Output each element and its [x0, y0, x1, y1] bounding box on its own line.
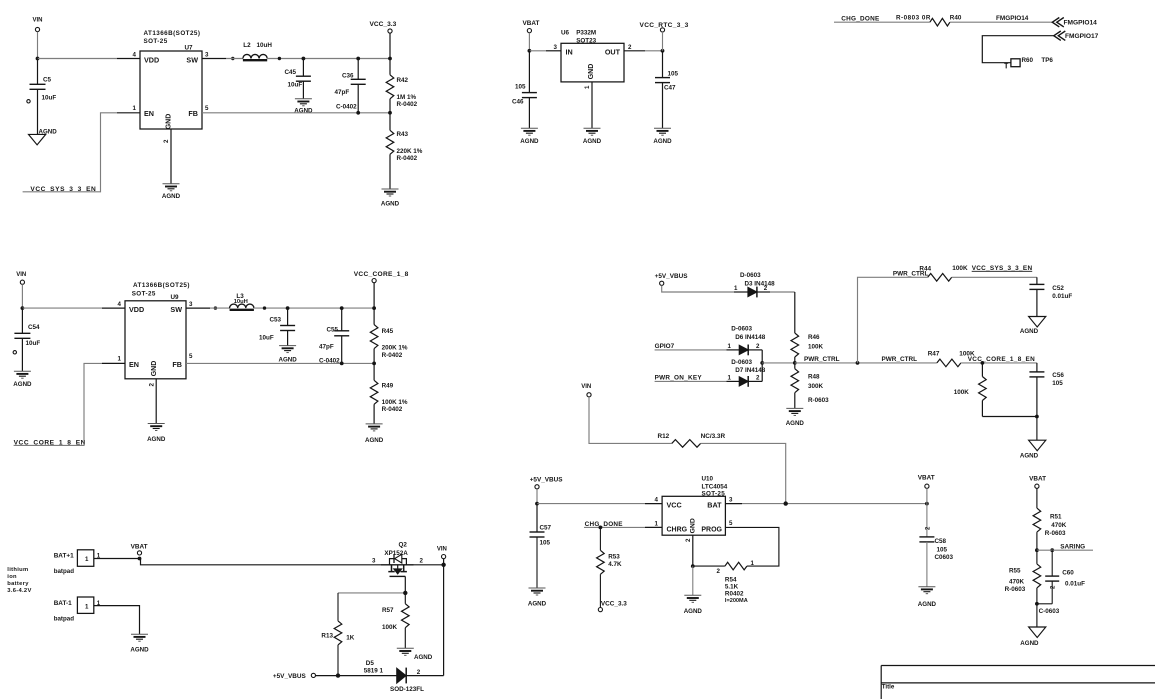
junction FB/R45/R49: [372, 362, 376, 366]
svg-text:C60: C60: [1062, 569, 1074, 576]
U6 GND pin 1 wire: [591, 82, 593, 128]
svg-text:NC/3.3R: NC/3.3R: [701, 433, 726, 440]
svg-text:5: 5: [205, 105, 209, 112]
svg-text:AGND: AGND: [918, 601, 937, 608]
svg-text:VBAT: VBAT: [523, 20, 540, 27]
wire PWR_CTRL run: [795, 362, 937, 364]
wire to U9 VDD: [22, 307, 102, 309]
svg-text:ion: ion: [7, 574, 17, 580]
junction gate/R13/R57: [403, 591, 407, 595]
junction OUT/C47: [661, 49, 665, 53]
svg-text:CHRG: CHRG: [667, 526, 688, 533]
junction Q2 drain/VIN: [441, 563, 445, 567]
ground AGND at U7 pin 2: [163, 183, 180, 185]
resistor R51: [1036, 488, 1038, 508]
resistor R54: [725, 562, 747, 570]
junction R13 bottom: [336, 673, 340, 677]
terminal VBAT (divider): [1035, 484, 1039, 488]
svg-text:AGND: AGND: [39, 128, 58, 135]
svg-text:R-0402: R-0402: [382, 352, 403, 359]
svg-text:C-0603: C-0603: [1039, 608, 1060, 615]
junction C56 bottom: [1035, 415, 1039, 419]
wire to AGND (divider): [1036, 604, 1038, 627]
pin stub U10.3 BAT: [725, 503, 742, 505]
svg-text:AGND: AGND: [1020, 640, 1039, 647]
svg-text:2: 2: [628, 44, 632, 51]
svg-text:FB: FB: [172, 360, 182, 369]
svg-text:R-0402: R-0402: [397, 101, 418, 108]
svg-text:+5V_VBUS: +5V_VBUS: [273, 673, 307, 680]
svg-text:D-0603: D-0603: [731, 359, 752, 366]
svg-text:5: 5: [729, 520, 733, 527]
ground AGND under C56: [1029, 440, 1046, 451]
svg-text:P332M: P332M: [576, 30, 596, 37]
svg-text:FMGPIO14: FMGPIO14: [996, 15, 1029, 22]
wire SW to L2: [226, 58, 243, 60]
svg-text:C57: C57: [540, 525, 552, 532]
svg-text:SOT-25: SOT-25: [144, 38, 168, 45]
svg-text:AGND: AGND: [684, 608, 703, 615]
svg-text:R-0603: R-0603: [808, 397, 829, 404]
junction PWR_CTRL branch: [856, 361, 860, 365]
svg-text:CHG_DONE: CHG_DONE: [841, 16, 880, 23]
terminal VCC_CORE_1_8: [372, 279, 376, 283]
svg-text:C45: C45: [285, 69, 297, 76]
svg-text:AGND: AGND: [528, 601, 547, 608]
pin stub U7.4 VDD: [117, 58, 140, 60]
svg-text:LTC4054: LTC4054: [702, 484, 728, 491]
capacitor C52: [1036, 277, 1038, 284]
junction VBAT battery: [138, 557, 142, 561]
junction CHG_DONE/R53: [599, 526, 603, 530]
junction VCC_CORE_1_8: [372, 306, 376, 310]
svg-text:R-0603: R-0603: [1005, 586, 1026, 593]
svg-text:100K: 100K: [382, 624, 398, 631]
svg-text:IN: IN: [566, 47, 573, 56]
resistor R57: [404, 593, 406, 604]
svg-text:VDD: VDD: [144, 55, 159, 64]
svg-text:2: 2: [148, 383, 155, 387]
svg-text:10uF: 10uF: [42, 95, 57, 102]
svg-text:SOD-123FL: SOD-123FL: [390, 686, 424, 693]
pin lead D7 cathode: [748, 380, 762, 382]
junction D6/D7 node: [760, 361, 764, 365]
svg-text:100K: 100K: [808, 343, 824, 350]
resistor R13: [337, 593, 339, 621]
svg-text:GND: GND: [166, 114, 173, 130]
svg-text:VBAT: VBAT: [918, 475, 935, 482]
svg-text:R44: R44: [919, 265, 931, 272]
wire GPIO7 to D6: [655, 349, 727, 351]
svg-text:AGND: AGND: [520, 138, 539, 145]
svg-text:2: 2: [685, 538, 692, 542]
diode D5: [397, 668, 406, 683]
junction C45 top: [302, 57, 306, 61]
svg-text:2: 2: [764, 285, 768, 292]
junction R51/R55/SARING: [1035, 548, 1039, 552]
wire VCC_CORE_1_8_EN to U9 EN: [14, 363, 102, 445]
ground AGND under C46: [521, 127, 538, 129]
svg-text:1: 1: [118, 356, 122, 363]
wire junction to AGND: [692, 566, 694, 595]
transistor Q2 gate: [390, 575, 406, 577]
svg-text:3: 3: [205, 52, 209, 59]
svg-text:VBAT: VBAT: [1029, 475, 1046, 482]
svg-text:10uF: 10uF: [26, 340, 41, 347]
svg-text:AT1366B(SOT25): AT1366B(SOT25): [144, 30, 201, 37]
transistor Q2 channel wire: [381, 564, 414, 566]
svg-text:R12: R12: [658, 433, 670, 440]
ground AGND under R48: [786, 407, 803, 409]
svg-text:FMGPIO17: FMGPIO17: [1065, 33, 1099, 40]
svg-text:GPIO7: GPIO7: [655, 343, 675, 350]
capacitor C46: [528, 51, 530, 93]
svg-text:VBAT: VBAT: [131, 544, 148, 551]
terminal +5V_VBUS (mid): [660, 281, 664, 285]
svg-text:VIN: VIN: [437, 547, 447, 553]
svg-text:10uF: 10uF: [259, 335, 274, 342]
connector BAT+ body: [77, 550, 93, 567]
resistor R44: [928, 274, 952, 282]
capacitor C55: [341, 308, 343, 331]
resistor R53: [599, 527, 601, 550]
svg-text:I=200MA: I=200MA: [725, 598, 748, 604]
svg-text:EN: EN: [129, 360, 139, 369]
svg-text:47pF: 47pF: [335, 89, 350, 96]
junction C55 top: [340, 306, 344, 310]
pin stub U9.4 VDD: [102, 307, 125, 309]
svg-text:GND: GND: [588, 64, 595, 80]
svg-text:105: 105: [937, 546, 948, 553]
svg-text:AGND: AGND: [414, 654, 433, 661]
ground AGND under R57: [397, 647, 414, 649]
svg-text:D7 IN4148: D7 IN4148: [735, 367, 766, 374]
wire L3 to VCC_CORE rail: [254, 307, 374, 309]
svg-text:SOT-25: SOT-25: [702, 491, 726, 498]
svg-text:PWR_CTRL: PWR_CTRL: [804, 356, 840, 363]
capacitor C58: [926, 504, 928, 537]
svg-text:4: 4: [133, 52, 137, 59]
wire VIN vertical: [443, 559, 445, 676]
svg-text:U10: U10: [702, 475, 714, 482]
svg-text:R46: R46: [808, 334, 820, 341]
svg-text:AGND: AGND: [583, 138, 602, 145]
junction PWR_CTRL at R46/R48: [793, 361, 797, 365]
regulator U9 body: [125, 301, 186, 379]
svg-text:220K 1%: 220K 1%: [397, 148, 423, 155]
svg-text:5: 5: [189, 353, 193, 360]
svg-text:GND: GND: [151, 361, 158, 377]
svg-text:TP6: TP6: [1041, 57, 1053, 64]
ground AGND under C45: [295, 98, 312, 100]
svg-text:AGND: AGND: [147, 436, 166, 443]
svg-text:AGND: AGND: [1020, 328, 1039, 335]
junction C36 bottom: [356, 111, 360, 115]
resistor R42: [389, 59, 391, 75]
svg-text:D-0603: D-0603: [731, 326, 752, 333]
terminal VIN (mid): [20, 280, 24, 284]
wire +5V_VBUS to D3: [662, 285, 734, 292]
svg-text:XP152A: XP152A: [384, 550, 408, 557]
svg-text:U9: U9: [171, 294, 180, 301]
svg-text:VCC_CORE_1_8: VCC_CORE_1_8: [354, 271, 409, 278]
ground AGND under BAT-: [131, 633, 148, 635]
pin stub U10.4 VCC: [645, 503, 662, 505]
svg-text:R57: R57: [382, 607, 394, 614]
svg-text:300K: 300K: [808, 383, 824, 390]
wire D6/D7 tie: [761, 350, 763, 382]
svg-text:2: 2: [163, 139, 170, 143]
diode D7: [739, 377, 748, 386]
wire OUT to VCC_RTC: [645, 50, 663, 52]
junction C53 top: [286, 306, 290, 310]
svg-text:R-0803 0R: R-0803 0R: [896, 15, 931, 22]
resistor R46: [791, 333, 799, 357]
ground AGND under C58: [918, 586, 935, 588]
wire R44 to C52: [952, 276, 1037, 278]
terminal VBAT (U6): [527, 29, 531, 33]
pin stub U9.3 SW: [186, 307, 210, 309]
svg-text:C56: C56: [1052, 372, 1064, 379]
svg-text:AGND: AGND: [786, 420, 805, 427]
resistor 100K (pull-down): [981, 363, 983, 377]
svg-text:0.01uF: 0.01uF: [1065, 580, 1085, 587]
svg-text:1: 1: [133, 105, 137, 112]
svg-text:AGND: AGND: [365, 437, 384, 444]
pin lead D7 anode: [727, 380, 740, 382]
svg-text:1: 1: [655, 520, 659, 527]
wire GND junction to R54: [693, 565, 725, 567]
junction C55 bottom: [340, 362, 344, 366]
junction VBAT/C58: [925, 502, 929, 506]
resistor R47: [937, 359, 961, 367]
terminal VIN (charger): [587, 393, 591, 397]
svg-text:SARING: SARING: [1060, 544, 1085, 551]
svg-text:105: 105: [668, 71, 679, 78]
pin lead D3 cathode: [757, 291, 770, 293]
ground AGND under C47: [654, 127, 671, 129]
svg-text:Title: Title: [882, 684, 895, 691]
wire D3 to R46: [770, 291, 795, 293]
wire SW to L3: [210, 307, 230, 309]
capacitor C60: [1051, 550, 1053, 576]
svg-text:VCC_RTC_3_3: VCC_RTC_3_3: [640, 22, 689, 29]
terminal VIN (battery): [442, 555, 446, 559]
pin lead D3 anode: [734, 291, 748, 293]
svg-text:R47: R47: [928, 350, 940, 357]
svg-text:AGND: AGND: [278, 357, 297, 364]
wire CHG_DONE to R40: [834, 21, 930, 23]
resistor R43: [389, 113, 391, 131]
U10 GND pin 2 wire: [692, 535, 694, 566]
capacitor C53: [287, 308, 289, 325]
svg-text:1: 1: [85, 603, 89, 610]
wire R47 to C56: [961, 362, 1037, 364]
svg-text:47pF: 47pF: [319, 343, 334, 350]
diode D6: [739, 345, 748, 354]
svg-text:lithium: lithium: [7, 567, 28, 573]
transistor Q2 body diode: [390, 559, 407, 565]
resistor R49: [373, 363, 375, 380]
capacitor C57: [536, 504, 538, 532]
svg-text:AGND: AGND: [381, 200, 400, 207]
capacitor C54: [21, 308, 23, 333]
svg-text:2: 2: [756, 343, 760, 350]
wire L2 to VCC_3.3 rail: [267, 58, 390, 60]
off-page connector FMGPIO14: [1052, 18, 1064, 27]
test point TP6 (R60): [1011, 59, 1020, 67]
svg-text:SW: SW: [170, 305, 182, 314]
capacitor C5: [37, 59, 39, 85]
svg-text:C36: C36: [342, 72, 354, 79]
svg-text:1: 1: [734, 285, 738, 292]
svg-text:R55: R55: [1009, 567, 1021, 574]
svg-text:C46: C46: [512, 98, 524, 105]
pin stub U6.2 OUT: [624, 50, 645, 52]
svg-text:VCC_SYS_3_3_EN: VCC_SYS_3_3_EN: [972, 265, 1033, 272]
transistor Q2 source/drain stubs: [388, 565, 407, 572]
ground AGND under C53: [279, 345, 296, 347]
wire BAT+ to VBAT: [94, 558, 140, 560]
svg-text:+5V_VBUS: +5V_VBUS: [655, 273, 689, 280]
svg-text:BAT: BAT: [707, 501, 722, 510]
charger U10 body: [662, 496, 725, 535]
wire VCC_3.3 to rail: [389, 33, 391, 58]
svg-text:EN: EN: [144, 109, 154, 118]
wire FB rail: [202, 112, 390, 114]
junction after L3: [263, 306, 266, 309]
transistor Q2 substrate arrow: [397, 565, 399, 569]
junction on SW rail: [231, 57, 234, 60]
capacitor C56: [1036, 363, 1038, 372]
svg-text:R49: R49: [382, 382, 394, 389]
svg-text:BAT+1: BAT+1: [54, 553, 74, 560]
svg-text:470K: 470K: [1009, 578, 1025, 585]
wire R12 to BAT rail: [701, 443, 786, 503]
svg-text:Q2: Q2: [399, 542, 408, 549]
svg-text:C53: C53: [270, 316, 282, 323]
resistor R45: [373, 308, 375, 325]
capacitor C47: [662, 51, 664, 78]
svg-text:2: 2: [1051, 585, 1057, 589]
ground AGND under U10: [684, 594, 701, 596]
pin lead D6 cathode: [748, 349, 762, 351]
svg-text:AT1366B(SOT25): AT1366B(SOT25): [133, 282, 190, 289]
svg-text:batpad: batpad: [54, 615, 75, 622]
svg-text:AGND: AGND: [130, 646, 149, 653]
terminal VBAT (charger): [925, 484, 929, 488]
junction VIN/C54: [21, 306, 25, 310]
diode D3: [748, 287, 757, 296]
svg-text:D5: D5: [366, 660, 375, 667]
wire C60 bottom tie: [1037, 603, 1052, 605]
svg-text:AGND: AGND: [294, 108, 313, 115]
svg-text:10uF: 10uF: [288, 82, 303, 89]
svg-text:R-0402: R-0402: [397, 155, 418, 162]
regulator U6 body: [561, 43, 624, 82]
svg-text:R45: R45: [382, 328, 394, 335]
svg-text:1K: 1K: [346, 635, 355, 642]
svg-text:C-0402: C-0402: [336, 104, 357, 111]
svg-text:VCC_CORE_1_8_EN: VCC_CORE_1_8_EN: [968, 356, 1035, 363]
svg-text:+5V_VBUS: +5V_VBUS: [530, 476, 564, 483]
svg-text:0.01uF: 0.01uF: [1052, 293, 1072, 300]
svg-text:VIN: VIN: [16, 272, 26, 278]
svg-text:SOT23: SOT23: [576, 37, 596, 44]
svg-text:R51: R51: [1050, 514, 1062, 521]
wire VBAT rail to Q2: [140, 559, 382, 565]
svg-text:10uH: 10uH: [257, 42, 273, 49]
wire +5V_VBUS to D5: [316, 675, 397, 677]
junction VBAT/C46: [528, 49, 532, 53]
svg-text:AGND: AGND: [1020, 453, 1039, 460]
ground AGND at U9 pin 2: [148, 423, 165, 425]
junction R55/C60 bottom: [1035, 602, 1039, 606]
svg-text:OUT: OUT: [605, 47, 621, 56]
wire VIN to R12: [589, 397, 672, 444]
ground AGND under R43: [382, 188, 399, 190]
svg-text:R0402: R0402: [725, 591, 744, 598]
svg-text:PWR_ON_KEY: PWR_ON_KEY: [655, 375, 703, 382]
junction C36 top: [356, 57, 360, 61]
wire D5 to VIN: [406, 675, 443, 677]
terminal VIN: [35, 27, 39, 31]
svg-text:4.7K: 4.7K: [608, 561, 622, 568]
svg-text:PWR_CTRL: PWR_CTRL: [882, 356, 918, 363]
svg-text:1: 1: [728, 374, 732, 381]
ground AGND under C54: [14, 370, 31, 372]
wire VCC_CORE to rail: [373, 283, 375, 308]
junction SARING/C60: [1050, 548, 1054, 552]
svg-text:C5: C5: [43, 77, 52, 84]
wire +5V_VBUS to VCC: [536, 489, 538, 504]
resistor R40: [930, 18, 950, 26]
svg-text:R48: R48: [808, 374, 820, 381]
wire BAT rail: [742, 503, 927, 505]
title block frame: [881, 666, 1155, 699]
svg-text:R-0402: R-0402: [382, 406, 403, 413]
pin stub U10.1 CHRG: [645, 526, 662, 528]
svg-text:R13: R13: [321, 633, 333, 640]
U7 GND pin 2 wire: [170, 129, 172, 184]
terminal VCC_3.3: [388, 29, 392, 33]
svg-text:105: 105: [1052, 380, 1063, 387]
wire VCC_RTC to rail: [662, 32, 664, 51]
ground AGND under C57: [529, 587, 546, 589]
svg-text:VCC_3.3: VCC_3.3: [370, 21, 397, 28]
wire SARING: [1037, 549, 1093, 551]
svg-text:C55: C55: [327, 327, 339, 334]
svg-text:100K: 100K: [954, 389, 970, 396]
wire U9 FB rail: [186, 362, 374, 364]
svg-text:100K 1%: 100K 1%: [382, 399, 408, 406]
svg-text:2: 2: [420, 557, 424, 564]
resistor R12: [672, 440, 701, 448]
wire VBAT to IN: [528, 33, 530, 51]
svg-text:10uH: 10uH: [234, 299, 248, 305]
inductor L2: [243, 54, 267, 58]
svg-text:D6 IN4148: D6 IN4148: [735, 334, 766, 341]
wire R40 to FMGPIO14: [950, 21, 1052, 23]
junction FB/R42/R43: [388, 111, 392, 115]
wire to U6 IN: [529, 50, 546, 52]
wire to PWR_CTRL node: [762, 362, 795, 364]
svg-text:3.6-4.2V: 3.6-4.2V: [7, 588, 31, 594]
svg-text:D-0603: D-0603: [740, 272, 761, 279]
capacitor C45: [302, 59, 304, 77]
svg-text:100K: 100K: [952, 265, 968, 272]
svg-text:batpad: batpad: [54, 568, 75, 575]
